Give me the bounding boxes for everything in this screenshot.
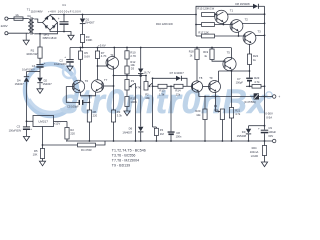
resistor R24 [250, 141, 267, 158]
svg-text:110V/48V: 110V/48V [31, 10, 43, 14]
svg-text:LOAD: LOAD [251, 154, 258, 158]
wire [231, 118, 233, 141]
node [204, 140, 206, 142]
svg-text:+: + [30, 127, 32, 131]
label +48V 10000uF/100V [48, 10, 81, 14]
resistor R19 1K [203, 48, 214, 60]
wire (T8 collector) [196, 60, 198, 82]
capacitor C4 10uF/100V [22, 58, 46, 71]
ground (transformer primary) [23, 33, 29, 44]
wire [27, 71, 41, 73]
node [145, 75, 147, 77]
wire (T6 base) [66, 86, 74, 88]
svg-text:T7,T8 - MJ15004: T7,T8 - MJ15004 [112, 158, 139, 162]
label C1 [62, 3, 66, 7]
node [135, 140, 137, 142]
wire (T1 emitter) [222, 22, 224, 24]
resistor R12 10K [125, 60, 136, 74]
node [89, 140, 91, 142]
fuse F1 1A [14, 13, 23, 20]
svg-text:T2: T2 [245, 18, 249, 22]
ground (R24) [261, 162, 267, 167]
IC U1 LM317 [33, 116, 54, 127]
wire [196, 6, 253, 14]
wire [96, 141, 106, 145]
wire +48V rail [50, 14, 196, 16]
wire (T8-T9 base link) [203, 86, 210, 88]
resistor R3 130K [80, 35, 92, 43]
wire [259, 96, 273, 98]
wire 0V rail [66, 140, 273, 142]
wire [43, 144, 78, 146]
capacitor C2 10uF/100V [54, 48, 74, 67]
resistor R10 2.7K [125, 48, 136, 60]
svg-text:D2: D2 [44, 78, 48, 82]
svg-text:16.7V: 16.7V [144, 70, 151, 74]
label 0-50V 0-5A [265, 112, 273, 120]
wire [97, 59, 99, 80]
transistor T2 [230, 18, 248, 33]
svg-text:1.3k: 1.3k [159, 93, 165, 97]
wire (T4 emitter to R9) [113, 76, 115, 111]
svg-text:C5 100pF: C5 100pF [67, 105, 79, 109]
ground (R5) [39, 161, 45, 166]
svg-text:+5.6V: +5.6V [98, 43, 106, 47]
svg-text:R8: R8 [93, 110, 97, 114]
svg-text:T8: T8 [199, 76, 203, 80]
wire [249, 125, 266, 127]
svg-text:100uF: 100uF [268, 130, 276, 134]
svg-text:P1: P1 [131, 79, 135, 83]
wire (T4 collector) [113, 48, 115, 58]
svg-text:+: + [258, 126, 260, 130]
capacitor C1 10000uF/100V [58, 14, 69, 32]
svg-text:R18: R18 [189, 50, 194, 54]
svg-text:T1,T2,T4,T5 - BC546: T1,T2,T4,T5 - BC546 [112, 149, 146, 153]
wire (T4 base) [98, 65, 108, 67]
wire [126, 107, 128, 112]
svg-text:C8: C8 [176, 131, 180, 135]
node [97, 47, 99, 49]
svg-text:220: 220 [70, 132, 75, 136]
svg-text:D8 1N5408: D8 1N5408 [235, 2, 250, 6]
potentiometer P4 1M [154, 127, 164, 141]
ground (bridge negative) [68, 35, 74, 40]
svg-text:47K: 47K [136, 85, 141, 89]
capacitor C7 100pF [236, 77, 253, 84]
resistor R21 4.7K (T5 emitter) [229, 71, 241, 118]
wire [23, 18, 28, 20]
node [231, 140, 233, 142]
wire (LM317 out +12V) [54, 121, 68, 125]
node [80, 47, 82, 49]
wire (P1 wiper) [135, 83, 137, 141]
node [264, 140, 266, 142]
diode D6 1N4007 [122, 127, 143, 141]
transistor T4 [106, 53, 119, 69]
node [39, 33, 41, 35]
node (bridge negative / C1) [63, 31, 65, 33]
transformer T1 110V/48V 6A [27, 7, 43, 34]
wire (T3 emitter) [249, 44, 251, 54]
svg-text:63V: 63V [268, 134, 273, 138]
wire (T9 collector) [218, 71, 220, 82]
svg-text:T3: T3 [257, 29, 261, 33]
wire [8, 32, 28, 34]
wire [126, 74, 128, 76]
wire (LM317 adj) [42, 127, 44, 149]
resistor R11 100K [125, 97, 137, 107]
svg-text:100uF/50V: 100uF/50V [9, 128, 22, 132]
transistor T8 [191, 76, 202, 92]
svg-text:C2: C2 [59, 58, 63, 62]
wire [215, 14, 217, 16]
diode D1 1N4007 [80, 15, 95, 35]
svg-text:+12V: +12V [54, 121, 61, 125]
svg-text:C4: C4 [32, 64, 36, 68]
diode D2 1N4007 [37, 72, 52, 89]
resistor R1 100K/1W [26, 34, 42, 58]
wire [8, 18, 14, 20]
svg-text:D3: D3 [131, 67, 135, 71]
wire [195, 14, 197, 36]
svg-text:1N4007: 1N4007 [122, 130, 132, 134]
svg-text:100mA: 100mA [250, 150, 259, 154]
node [222, 140, 224, 142]
resistor R17 12K [196, 30, 215, 37]
svg-text:+: + [278, 95, 280, 99]
svg-text:5.6V: 5.6V [84, 54, 90, 58]
zener D5 5.6V [79, 48, 91, 60]
wire (T5 collector) [231, 48, 233, 60]
wire [249, 82, 251, 87]
node [26, 120, 28, 122]
wire (bridge negative) [50, 30, 71, 35]
node [211, 47, 213, 49]
wire [219, 70, 251, 72]
svg-text:100pF: 100pF [236, 80, 244, 84]
wire [140, 76, 142, 127]
wire (T7 base) [102, 85, 114, 87]
wire [261, 85, 265, 87]
potentiometer P1 47K [125, 76, 141, 91]
wire [49, 14, 51, 17]
svg-text:4.7k: 4.7k [235, 112, 241, 116]
svg-text:T4: T4 [110, 53, 114, 57]
svg-text:R21: R21 [235, 108, 240, 112]
svg-text:R16 120K/1W: R16 120K/1W [156, 22, 173, 26]
svg-text:C7: C7 [237, 77, 241, 81]
resistor R15 120K/1W [197, 6, 214, 16]
svg-text:R9: R9 [117, 110, 121, 114]
transistor T1 [215, 8, 234, 23]
resistor R14 12K [174, 84, 183, 96]
svg-text:R17 12K: R17 12K [198, 30, 209, 34]
svg-text:10uF/100V: 10uF/100V [54, 62, 67, 66]
resistor R20 1K [248, 54, 259, 65]
svg-text:10k: 10k [214, 108, 219, 112]
wire (T2 collector) [242, 23, 265, 25]
decorative watermark (not labelled) [25, 64, 272, 121]
wire [212, 60, 224, 62]
resistor R5 10K [33, 149, 45, 159]
svg-text:1N4007: 1N4007 [43, 82, 53, 86]
svg-text:+: + [44, 61, 46, 65]
svg-text:+48V 10000uF/100V: +48V 10000uF/100V [48, 10, 81, 14]
svg-text:LM317: LM317 [38, 120, 48, 124]
svg-text:1M: 1M [160, 132, 165, 136]
svg-text:220V: 220V [1, 24, 8, 28]
svg-text:1A: 1A [15, 13, 19, 17]
svg-text:10k: 10k [145, 96, 150, 100]
wire [221, 120, 223, 142]
svg-text:6A: 6A [27, 14, 31, 18]
svg-text:1N4007: 1N4007 [85, 21, 95, 25]
svg-text:T3,T6 - BC556: T3,T6 - BC556 [112, 154, 136, 158]
svg-text:R20: R20 [195, 109, 200, 113]
resistor R20 12K [195, 97, 207, 120]
output terminal negative [273, 139, 276, 142]
resistor R7 4.7K [95, 48, 106, 59]
transistor T5 [223, 50, 236, 70]
node [140, 140, 142, 142]
ground (D2) [37, 89, 43, 94]
svg-text:R19: R19 [203, 50, 208, 54]
node [170, 140, 172, 142]
wire [204, 120, 206, 142]
wire [34, 23, 57, 34]
wire [126, 59, 128, 66]
svg-text:10uF/100V: 10uF/100V [22, 68, 35, 72]
diode D4 1N4007 [15, 72, 30, 122]
svg-text:12k: 12k [196, 113, 201, 117]
node [82, 14, 84, 16]
svg-text:R12: R12 [130, 60, 135, 64]
wire [246, 85, 252, 87]
svg-text:4.7K: 4.7K [101, 54, 107, 58]
capacitor C5 100pF [67, 100, 83, 109]
wire [66, 139, 67, 141]
wire +5.6V rail [70, 47, 231, 49]
wire [153, 85, 159, 87]
svg-text:C9: C9 [268, 126, 272, 130]
wire [88, 122, 90, 141]
wire [264, 85, 266, 129]
node [196, 47, 198, 49]
resistor R13 1.3K [158, 84, 167, 96]
wire [249, 71, 251, 78]
wire (C5 loop) [66, 87, 78, 103]
wire [264, 156, 266, 163]
wire (reference node) [114, 75, 147, 77]
ground (R11) [124, 111, 130, 116]
wire [249, 65, 251, 72]
capacitor C3 100uF/50V [9, 121, 33, 136]
svg-text:P3: P3 [214, 104, 218, 108]
svg-text:1N4007: 1N4007 [15, 82, 25, 86]
node [126, 75, 128, 77]
transistor T9 [209, 76, 221, 92]
output terminal positive [273, 95, 281, 99]
svg-text:4.7k: 4.7k [254, 80, 260, 84]
wire [42, 159, 44, 162]
resistor R23 4.7K [252, 76, 261, 88]
transistor T3 [243, 29, 261, 44]
zener D3 16.7V [131, 47, 151, 76]
node [248, 140, 250, 142]
svg-text:R15 120K/1W: R15 120K/1W [197, 6, 214, 10]
svg-text:0-5A: 0-5A [266, 115, 272, 119]
wire (emitters) [81, 92, 96, 97]
bridge rectifier BR1 KBPC1810 [43, 15, 58, 40]
node (D6 tap) [139, 74, 142, 77]
wire [183, 85, 192, 87]
wire [83, 101, 89, 103]
svg-text:100K: 100K [130, 100, 137, 104]
transistor T7 [91, 78, 107, 92]
diode D8 1N5408 [235, 2, 258, 9]
potentiometer P3 10K [214, 97, 225, 120]
potentiometer P2 10K [144, 76, 152, 100]
wire (T3 base row) [215, 35, 245, 37]
wire [126, 90, 128, 97]
wire [264, 6, 266, 96]
capacitor C8 100n [168, 131, 182, 141]
svg-text:D9: D9 [242, 130, 246, 134]
resistor R9 3.3K [111, 110, 122, 122]
diode D7 1N4007 [170, 71, 185, 81]
svg-text:R24: R24 [252, 146, 257, 150]
resistor R8 220 [87, 110, 97, 122]
wire [82, 43, 84, 48]
svg-text:T7: T7 [104, 78, 108, 82]
wire [152, 78, 154, 127]
wire [153, 126, 157, 128]
wire [182, 78, 187, 86]
svg-text:130K: 130K [86, 38, 93, 42]
svg-text:2.7K: 2.7K [130, 54, 136, 58]
wire (T1 collector) [227, 13, 265, 15]
svg-text:C3: C3 [17, 125, 21, 129]
svg-text:R2: R2 [70, 128, 74, 132]
diode D9 1N5408 [237, 126, 252, 141]
node [82, 47, 84, 49]
wire [167, 85, 174, 87]
svg-text:R1: R1 [31, 48, 35, 52]
svg-text:T1: T1 [230, 8, 234, 12]
wire [170, 86, 172, 131]
svg-text:T5: T5 [227, 50, 231, 54]
wire (tail) [89, 96, 91, 110]
wire [34, 19, 42, 23]
shunt resistor 0.47/5W [244, 93, 259, 104]
svg-text:100K/1W: 100K/1W [26, 52, 38, 56]
svg-text:12k: 12k [176, 93, 181, 97]
wire (T3 collector) [255, 35, 265, 37]
wire [80, 59, 82, 80]
legend text [112, 149, 146, 168]
svg-text:T9 - BD139: T9 - BD139 [112, 163, 130, 167]
svg-text:D4: D4 [17, 78, 21, 82]
ground (C2) [67, 66, 73, 71]
wire [152, 77, 176, 79]
svg-text:T6: T6 [85, 79, 89, 83]
label 220V [1, 24, 8, 28]
svg-text:+: + [58, 17, 60, 21]
label +5.6V [98, 43, 106, 47]
ground (C3) [23, 136, 29, 141]
wire (T4 emitter) [113, 68, 115, 76]
svg-text:T9: T9 [209, 76, 213, 80]
wire [113, 122, 115, 141]
svg-text:R4 470R: R4 470R [81, 148, 92, 152]
node [126, 47, 128, 49]
resistor R16 120K/1W [156, 22, 215, 26]
svg-text:100n: 100n [176, 135, 182, 139]
svg-text:R5: R5 [34, 149, 38, 153]
wire output line [199, 96, 254, 98]
wire (T2 emitter) [238, 31, 240, 36]
node [152, 85, 154, 87]
AC input terminal top [5, 17, 8, 20]
node [97, 65, 99, 67]
svg-text:KBPC1810: KBPC1810 [43, 36, 57, 40]
resistor R2 220 [65, 122, 75, 140]
wire [27, 120, 34, 122]
wire (T5 emitter) [231, 69, 233, 71]
node [156, 140, 158, 142]
resistor R4 470R [78, 143, 96, 152]
svg-text:220: 220 [93, 114, 98, 118]
svg-text:+: + [64, 55, 66, 59]
node [113, 47, 115, 49]
capacitor C9 100uF 63V [258, 126, 276, 141]
wire [259, 5, 265, 7]
wire (T9 emitter) [215, 92, 217, 96]
transistor T6 [72, 79, 88, 93]
svg-text:D7 1N4007: D7 1N4007 [170, 71, 185, 75]
svg-text:3.3k: 3.3k [117, 114, 123, 118]
AC input terminal bottom [5, 32, 8, 35]
svg-text:(0.47/5W): (0.47/5W) [244, 100, 256, 104]
svg-text:1N5408: 1N5408 [237, 134, 247, 138]
node [113, 140, 115, 142]
wire (T2 base row) [195, 24, 232, 26]
svg-text:C1: C1 [62, 3, 66, 7]
resistor R18 1K [189, 48, 199, 60]
node [113, 75, 115, 77]
wire (T8 emitter to output line) [198, 92, 200, 97]
svg-text:10K: 10K [33, 153, 38, 157]
